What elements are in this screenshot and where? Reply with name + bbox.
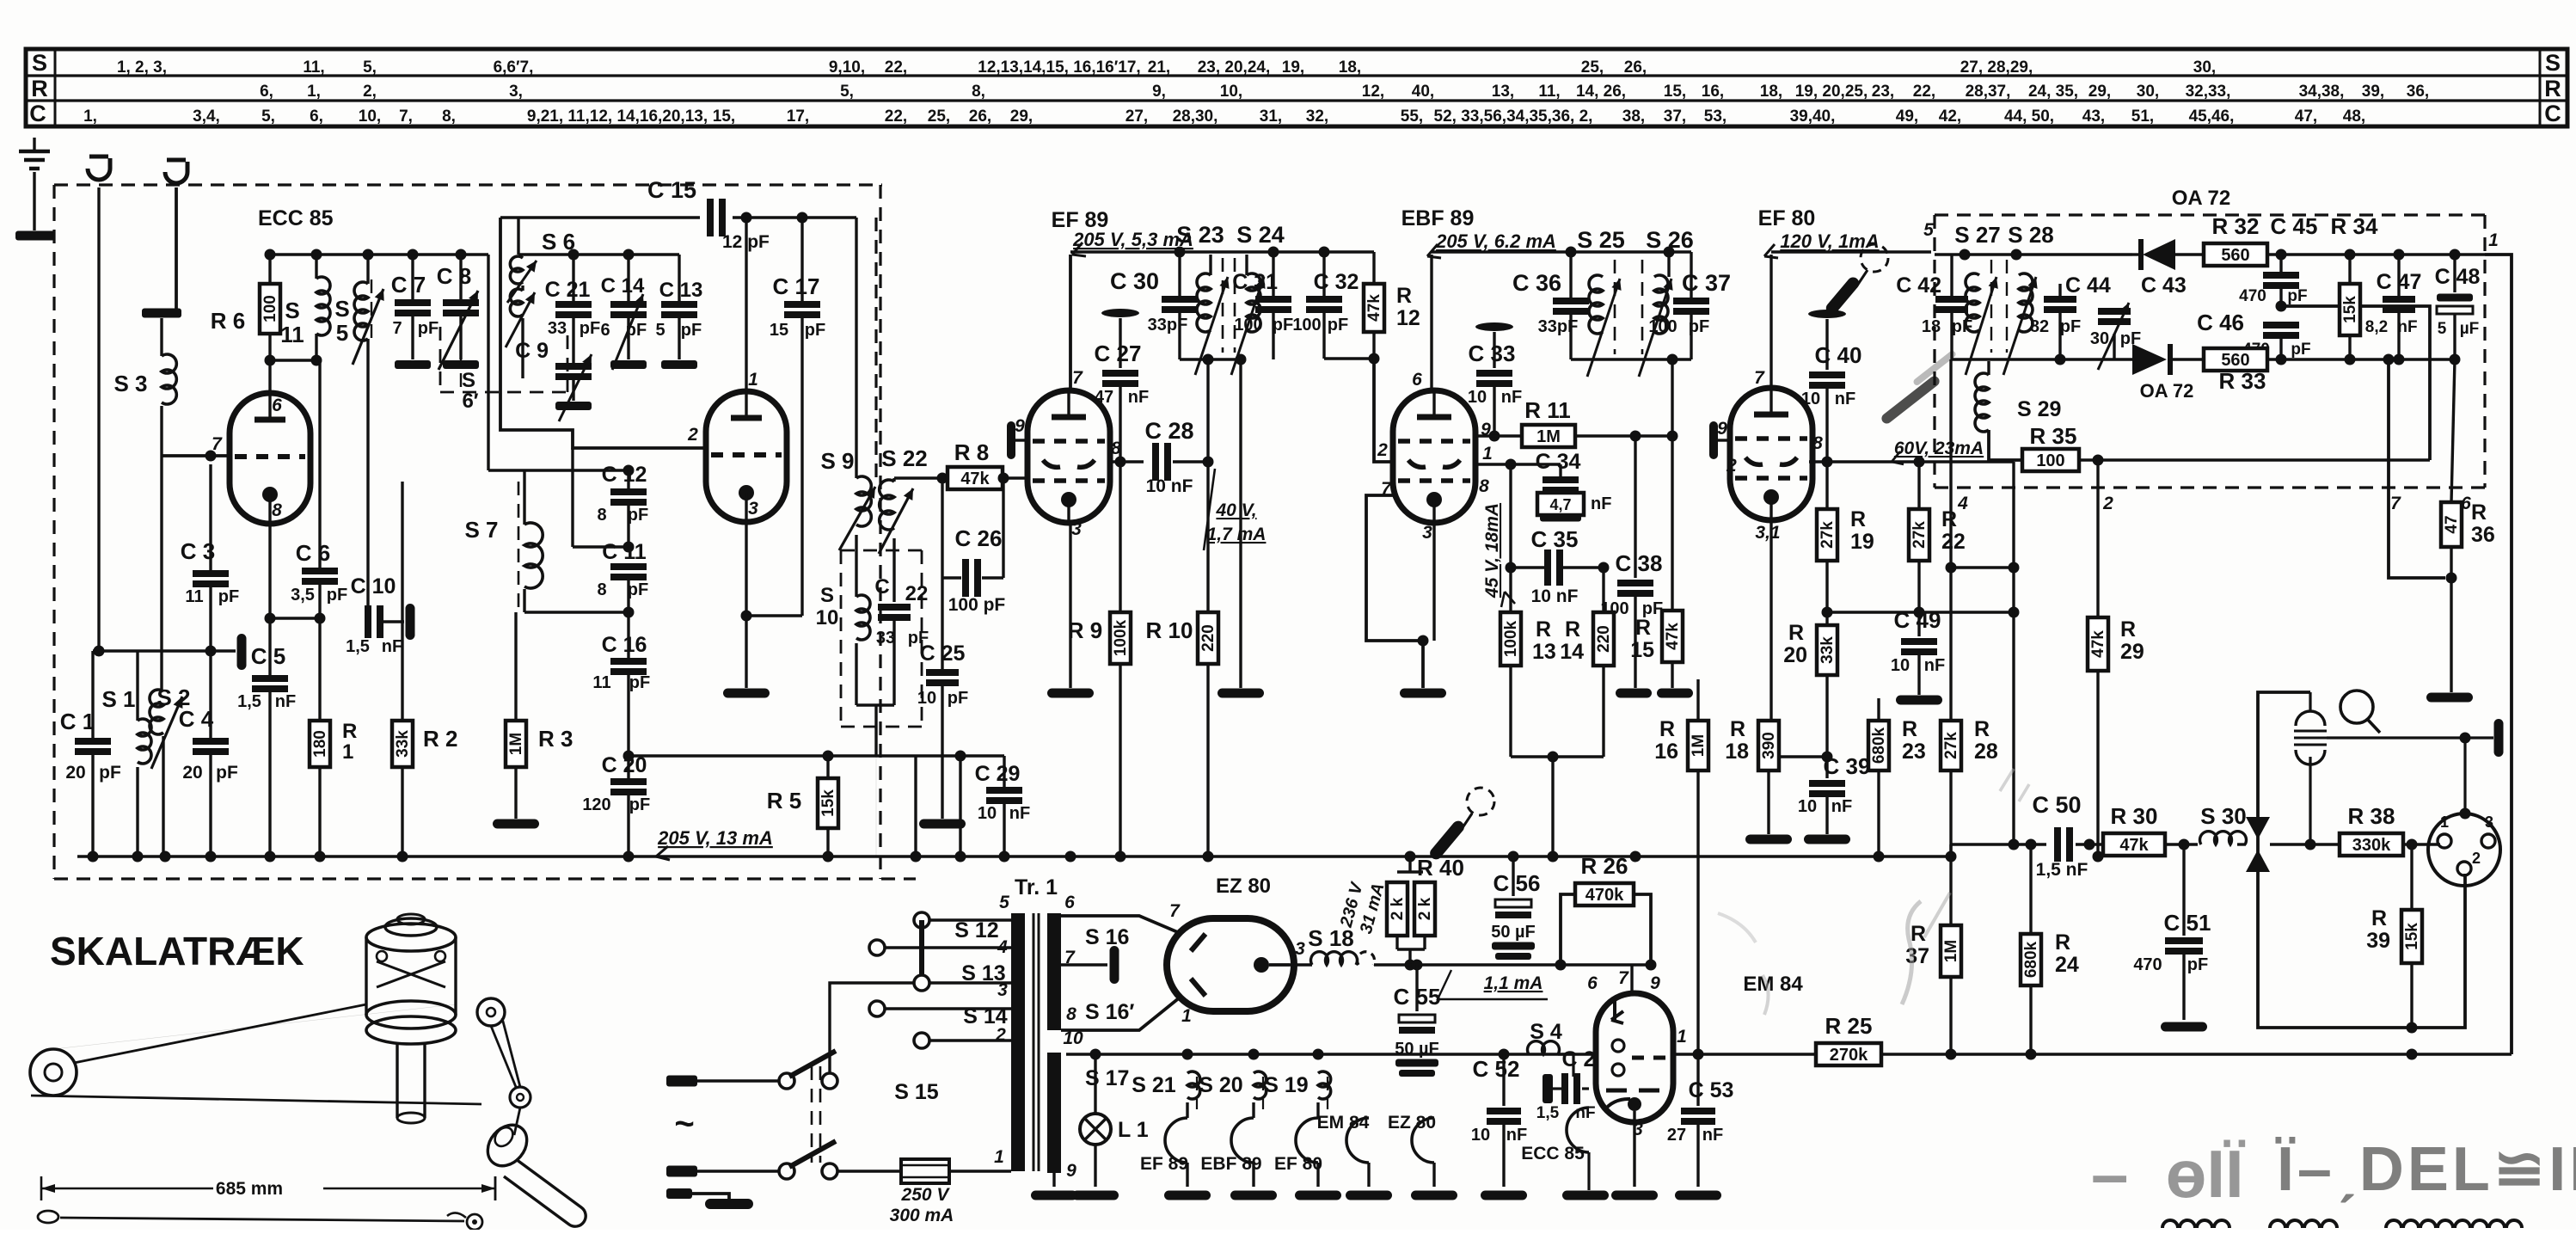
svg-text:43,: 43, xyxy=(2082,107,2105,126)
parts-location table frame xyxy=(26,49,2567,126)
wire anode node V1a xyxy=(268,360,271,393)
phone switch icon upper xyxy=(1861,244,1888,272)
capacitor C51 xyxy=(2182,844,2185,936)
svg-text:5: 5 xyxy=(655,321,665,340)
wire antenna 1 down xyxy=(97,187,100,651)
ground under C25 xyxy=(919,820,966,829)
dimension 685mm xyxy=(41,1176,495,1200)
svg-text:1, 2, 3,: 1, 2, 3, xyxy=(117,58,167,77)
svg-text:47k: 47k xyxy=(2119,836,2149,855)
svg-text:27, 28,29,: 27, 28,29, xyxy=(1960,58,2033,77)
wire to DIN top xyxy=(2463,738,2466,815)
svg-text:C: C xyxy=(874,575,889,599)
resistor R14 220 xyxy=(1602,568,1604,612)
tuning shaft knob xyxy=(480,1117,535,1174)
svg-text:8: 8 xyxy=(597,580,606,599)
pin 9 bar EF89 xyxy=(1007,421,1015,459)
svg-text:S 25: S 25 xyxy=(1577,227,1625,253)
svg-text:25,: 25, xyxy=(1581,58,1604,77)
svg-text:R: R xyxy=(1850,507,1866,531)
svg-text:EZ 80: EZ 80 xyxy=(1388,1113,1436,1133)
wire anode V1b xyxy=(745,218,747,391)
svg-text:C 1: C 1 xyxy=(60,709,95,734)
svg-text:1: 1 xyxy=(342,740,353,764)
svg-text:9,10,: 9,10, xyxy=(829,58,865,77)
ground R36 xyxy=(2426,693,2473,703)
svg-text:ECC 85: ECC 85 xyxy=(258,206,334,230)
svg-text:5: 5 xyxy=(1923,220,1934,240)
svg-text:19,: 19, xyxy=(1282,58,1304,77)
svg-text:S 17: S 17 xyxy=(1085,1066,1129,1090)
capacitor C21 xyxy=(572,255,574,301)
wire tank bottom to line xyxy=(856,703,894,706)
svg-text:S 24: S 24 xyxy=(1236,222,1285,248)
wire earphone to chassis xyxy=(2327,736,2493,739)
svg-text:1,7 mA: 1,7 mA xyxy=(1207,525,1267,544)
svg-text:38,: 38, xyxy=(1622,107,1645,126)
small pulley xyxy=(510,1087,531,1108)
svg-text:27k: 27k xyxy=(1819,521,1837,549)
svg-text:6: 6 xyxy=(1412,370,1422,390)
capacitor C31 xyxy=(1272,252,1274,296)
svg-text:C 27: C 27 xyxy=(1095,341,1142,366)
svg-text:R 11: R 11 xyxy=(1524,397,1571,423)
svg-text:2: 2 xyxy=(1377,440,1388,460)
tube EF80 V4 xyxy=(1730,388,1812,520)
svg-text:S: S xyxy=(334,296,349,322)
svg-text:C 2: C 2 xyxy=(1562,1047,1596,1071)
front-end dashed enclosure xyxy=(54,183,882,186)
capacitor C42 xyxy=(1950,255,1953,296)
resistor R12 47k xyxy=(1372,252,1375,284)
svg-text:300 mA: 300 mA xyxy=(890,1206,954,1225)
tube EBF89 V3 xyxy=(1393,390,1475,523)
svg-text:S: S xyxy=(462,369,475,392)
svg-text:C 51: C 51 xyxy=(2164,910,2211,936)
svg-text:7: 7 xyxy=(1169,901,1181,921)
capacitor C43 trimmer xyxy=(2098,308,2131,315)
svg-text:7: 7 xyxy=(1754,368,1765,388)
svg-text:L 1: L 1 xyxy=(1118,1118,1149,1142)
coil S2 variable xyxy=(160,456,163,691)
svg-text:3,4,: 3,4, xyxy=(193,107,220,126)
svg-text:390: 390 xyxy=(1760,732,1778,759)
svg-text:C 46: C 46 xyxy=(2197,310,2244,335)
wire EF80 cathode xyxy=(1769,521,1772,757)
svg-text:100: 100 xyxy=(261,295,279,322)
svg-text:31,: 31, xyxy=(1260,107,1282,126)
svg-text:11: 11 xyxy=(185,587,203,606)
svg-text:OA 72: OA 72 xyxy=(2172,187,2230,210)
resistor R39 15k xyxy=(2410,844,2413,910)
ground R15 xyxy=(1657,689,1693,698)
svg-text:8,: 8, xyxy=(442,107,456,126)
svg-text:22: 22 xyxy=(905,582,929,605)
resistor R26 470k xyxy=(1561,894,1575,965)
svg-text:100: 100 xyxy=(1292,316,1321,335)
svg-text:470: 470 xyxy=(2133,955,2162,974)
svg-text:5,: 5, xyxy=(363,58,377,77)
svg-text:45,46,: 45,46, xyxy=(2189,107,2235,126)
svg-text:120 V, 1mA: 120 V, 1mA xyxy=(1780,230,1879,252)
svg-text:22: 22 xyxy=(1941,530,1966,554)
svg-text:C 43: C 43 xyxy=(2141,273,2187,298)
bottom edge coil glyphs xyxy=(2162,1220,2229,1228)
svg-text:8: 8 xyxy=(1812,433,1823,453)
ground under R3 xyxy=(493,820,539,829)
svg-text:100k: 100k xyxy=(1502,620,1520,657)
svg-text:C 17: C 17 xyxy=(773,273,820,299)
svg-text:C 35: C 35 xyxy=(1531,526,1579,552)
svg-text:1M: 1M xyxy=(1690,734,1708,757)
capacitor C45 xyxy=(2279,255,2282,272)
svg-text:9: 9 xyxy=(1066,1161,1076,1181)
coil S11 xyxy=(315,255,317,279)
capacitor C30 xyxy=(1178,252,1181,296)
capacitor C1 xyxy=(75,738,111,745)
svg-text:R: R xyxy=(1788,621,1804,645)
svg-text:C 50: C 50 xyxy=(2032,792,2081,818)
wire EF89 grid xyxy=(1003,477,1028,479)
svg-text:13: 13 xyxy=(1532,640,1556,664)
svg-text:C 26: C 26 xyxy=(955,525,1003,551)
heater EM84 arc xyxy=(1346,1118,1369,1163)
svg-text:10: 10 xyxy=(1891,656,1910,675)
svg-text:nF: nF xyxy=(1835,390,1855,408)
svg-text:7: 7 xyxy=(212,434,223,454)
svg-text:C 34: C 34 xyxy=(1536,450,1581,474)
wire R13 R14 common xyxy=(1511,755,1604,758)
svg-text:C 37: C 37 xyxy=(1682,270,1731,296)
svg-text:pF: pF xyxy=(218,587,239,606)
svg-text:C 4: C 4 xyxy=(179,706,214,732)
svg-text:20: 20 xyxy=(1783,643,1807,667)
wire top bus 296 xyxy=(267,253,488,255)
svg-text:27k: 27k xyxy=(1911,521,1929,549)
resistor R20 33k xyxy=(1817,625,1837,675)
svg-text:C 14: C 14 xyxy=(601,274,645,298)
svg-text:R 3: R 3 xyxy=(538,726,573,752)
wire detector audio out xyxy=(2281,306,2430,460)
svg-text:R: R xyxy=(1659,717,1675,741)
svg-text:1: 1 xyxy=(2440,813,2449,831)
svg-text:52, 33,56,34,35,36, 2,: 52, 33,56,34,35,36, 2, xyxy=(1434,107,1593,126)
svg-text:16,: 16, xyxy=(1702,83,1724,101)
svg-text:16: 16 xyxy=(1654,740,1678,764)
resistor R37 1M xyxy=(1949,856,1952,925)
svg-text:33: 33 xyxy=(548,319,567,338)
svg-text:R 26: R 26 xyxy=(1581,853,1628,879)
ground tank1 xyxy=(1217,689,1264,698)
svg-text:C 21: C 21 xyxy=(545,278,591,302)
wire det lower bus xyxy=(1952,358,2079,360)
svg-text:C 3: C 3 xyxy=(181,538,215,564)
svg-text:11: 11 xyxy=(592,673,610,692)
wire heater-bottom line xyxy=(1066,1053,1593,1056)
resistor R15 47k xyxy=(1671,436,1673,611)
svg-text:pF: pF xyxy=(629,673,650,692)
antenna hook 1 xyxy=(88,158,110,180)
svg-text:C 6: C 6 xyxy=(296,540,330,566)
coil S6 variable xyxy=(510,256,523,284)
svg-text:R 32: R 32 xyxy=(2212,213,2260,239)
svg-text:32,33,: 32,33, xyxy=(2186,83,2231,101)
svg-text:R 8: R 8 xyxy=(954,439,989,465)
pickup Q symbol xyxy=(2340,691,2373,723)
resistor R6 100 xyxy=(268,255,271,284)
svg-text:10 nF: 10 nF xyxy=(1146,476,1193,496)
svg-text:1: 1 xyxy=(1677,1027,1687,1047)
capacitor C53 xyxy=(1681,1108,1715,1114)
svg-text:C 30: C 30 xyxy=(1110,268,1159,294)
svg-text:27: 27 xyxy=(1667,1126,1686,1145)
resistor R8 47k xyxy=(948,467,1003,489)
wire EZ80 anodes from windings xyxy=(1061,916,1180,933)
svg-text:pF: pF xyxy=(628,506,648,525)
svg-text:R: R xyxy=(2471,500,2487,525)
svg-text:29,: 29, xyxy=(2088,83,2111,101)
svg-text:C 47: C 47 xyxy=(2377,270,2422,294)
coil S5 variable xyxy=(371,279,372,344)
svg-text:R: R xyxy=(1911,922,1926,946)
chassis plate above C27 xyxy=(1101,309,1139,317)
svg-text:S: S xyxy=(32,50,47,76)
coil S22 variable xyxy=(892,478,895,482)
svg-text:10: 10 xyxy=(1471,1126,1490,1145)
svg-text:560: 560 xyxy=(2221,351,2249,370)
svg-text:27,: 27, xyxy=(1125,107,1148,126)
svg-text:28: 28 xyxy=(1974,740,1998,764)
svg-text:39,: 39, xyxy=(2362,83,2384,101)
coil S1 xyxy=(138,719,151,764)
svg-text:~: ~ xyxy=(674,1105,694,1143)
svg-text:7: 7 xyxy=(1618,968,1629,988)
svg-text:10: 10 xyxy=(816,606,839,629)
svg-text:29,: 29, xyxy=(1010,107,1033,126)
svg-text:10: 10 xyxy=(917,689,936,708)
resistor R11 1M xyxy=(1475,434,1524,437)
svg-text:4,7: 4,7 xyxy=(1549,496,1571,513)
svg-text:12,: 12, xyxy=(1362,83,1384,101)
svg-text:3: 3 xyxy=(1422,523,1432,543)
svg-text:8: 8 xyxy=(272,500,282,520)
svg-text:7: 7 xyxy=(392,319,402,338)
svg-text:C 56: C 56 xyxy=(1493,870,1541,896)
svg-text:C: C xyxy=(29,101,46,126)
capacitor C26 series xyxy=(941,478,943,578)
svg-text:21,: 21, xyxy=(1148,58,1170,77)
svg-text:220: 220 xyxy=(1595,625,1613,653)
capacitor C15 series xyxy=(500,216,700,218)
svg-text:23, 20,24,: 23, 20,24, xyxy=(1198,58,1271,77)
svg-text:R: R xyxy=(1565,617,1580,642)
svg-text:5,: 5, xyxy=(840,83,854,101)
svg-text:pF: pF xyxy=(327,586,347,605)
svg-text:6,: 6, xyxy=(260,83,273,101)
svg-text:C 8: C 8 xyxy=(437,263,471,289)
wire EF89 anode line xyxy=(1110,460,1144,463)
svg-text:R 9: R 9 xyxy=(1068,617,1102,643)
wire B+ bus 205V xyxy=(77,855,1952,858)
svg-text:8: 8 xyxy=(1066,1004,1076,1024)
svg-text:30,: 30, xyxy=(2193,58,2216,77)
capacitor C22 xyxy=(892,538,895,602)
wire R29 column xyxy=(2096,460,2099,617)
resistor R34 15k xyxy=(2348,255,2351,284)
svg-text:12: 12 xyxy=(1396,306,1420,330)
svg-text:SKALATRÆK: SKALATRÆK xyxy=(50,929,304,973)
svg-text:27k: 27k xyxy=(1942,732,1960,759)
svg-text:3,: 3, xyxy=(509,83,523,101)
diode OA72 upper xyxy=(2143,239,2175,270)
svg-text:1: 1 xyxy=(994,1147,1004,1167)
svg-text:pF: pF xyxy=(1952,317,1972,336)
capacitor C40 xyxy=(1808,310,1846,318)
svg-text:23,: 23, xyxy=(1872,83,1894,101)
primary tap wires xyxy=(929,918,1011,921)
capacitor C46 xyxy=(2263,322,2299,328)
right pulley xyxy=(477,998,505,1026)
svg-text:1,5: 1,5 xyxy=(346,637,370,656)
resistor R24 680k xyxy=(2029,844,2032,934)
node antenna plate xyxy=(15,231,55,241)
svg-text:9: 9 xyxy=(1717,419,1727,439)
svg-text:6: 6 xyxy=(272,396,282,415)
svg-text:pF: pF xyxy=(1273,316,1293,335)
svg-text:S 27: S 27 xyxy=(1954,222,2001,248)
svg-text:28,37,: 28,37, xyxy=(1966,83,2011,101)
resistor R35 100 xyxy=(2022,449,2079,471)
svg-text:pF: pF xyxy=(216,763,238,783)
resistor R19 27k xyxy=(1825,462,1828,509)
wire EBF89 pin1 to C34 xyxy=(1475,463,1511,465)
svg-text:23: 23 xyxy=(1902,740,1926,764)
svg-text:22,: 22, xyxy=(1913,83,1935,101)
wire grid triode1 xyxy=(162,454,230,457)
capacitor C17 xyxy=(800,218,803,301)
svg-text:270k: 270k xyxy=(1830,1046,1868,1065)
svg-text:pF: pF xyxy=(580,319,600,338)
wire R20 C49 node xyxy=(1827,611,2014,613)
svg-text:S 23: S 23 xyxy=(1176,222,1224,248)
svg-text:C 49: C 49 xyxy=(1894,607,1941,633)
capacitor C49 xyxy=(1917,612,1920,636)
svg-text:24, 35,: 24, 35, xyxy=(2028,83,2078,101)
coil S29 xyxy=(1951,359,1953,378)
svg-text:R 35: R 35 xyxy=(2030,423,2077,449)
coil S6prime variable xyxy=(521,285,524,291)
svg-text:10: 10 xyxy=(1468,388,1487,407)
svg-text:pF: pF xyxy=(418,319,439,338)
capacitor C12 xyxy=(627,470,629,488)
svg-text:47k: 47k xyxy=(2089,630,2107,658)
svg-text:pF: pF xyxy=(2187,955,2208,974)
svg-text:560: 560 xyxy=(2221,246,2249,265)
svg-text:C 10: C 10 xyxy=(351,574,396,599)
svg-text:S 26: S 26 xyxy=(1646,227,1694,253)
svg-text:nF: nF xyxy=(275,692,296,711)
svg-text:C 16: C 16 xyxy=(602,633,647,657)
svg-text:17,: 17, xyxy=(787,107,809,126)
svg-text:12,13,14,15, 16,16′17,: 12,13,14,15, 16,16′17, xyxy=(978,58,1140,77)
ground C39 xyxy=(1804,835,1850,844)
svg-text:47: 47 xyxy=(2443,515,2461,533)
wire feed line 879 xyxy=(629,754,1004,757)
coil S3 xyxy=(142,309,181,318)
svg-text:19, 20,25,: 19, 20,25, xyxy=(1795,83,1868,101)
svg-text:1M: 1M xyxy=(1536,427,1561,446)
wire tank1 bottom xyxy=(1180,358,1241,360)
capacitor C8 trimmer xyxy=(459,255,462,299)
svg-text:50 µF: 50 µF xyxy=(1395,1040,1439,1059)
svg-text:44, 50,: 44, 50, xyxy=(2004,107,2054,126)
svg-text:7: 7 xyxy=(2390,494,2401,513)
svg-text:36: 36 xyxy=(2471,523,2495,547)
svg-text:685 mm: 685 mm xyxy=(216,1179,283,1199)
svg-text:C 15: C 15 xyxy=(647,177,696,203)
mains switch xyxy=(779,1073,794,1089)
DIN socket xyxy=(2428,813,2500,886)
resistor R13 100k xyxy=(1509,568,1512,612)
svg-text:36,: 36, xyxy=(2407,83,2429,101)
pencil scribbles xyxy=(1902,901,1921,1004)
svg-text:9,21, 11,12, 14,16,20,13,: 9,21, 11,12, 14,16,20,13, xyxy=(527,107,708,126)
resistor R25 270k xyxy=(1816,1043,1881,1065)
wire tank2 bottom xyxy=(1571,358,1691,360)
svg-text:S 22: S 22 xyxy=(881,445,928,471)
svg-text:nF: nF xyxy=(1702,1126,1723,1145)
wire EF89 cathode xyxy=(1069,524,1071,688)
svg-text:C 38: C 38 xyxy=(1616,550,1663,576)
svg-text:1,: 1, xyxy=(307,83,321,101)
svg-text:S 9: S 9 xyxy=(820,448,854,474)
coil S30 xyxy=(2200,832,2247,844)
svg-text:Tr. 1: Tr. 1 xyxy=(1015,875,1058,899)
ground R18 xyxy=(1745,835,1792,844)
svg-text:3,1: 3,1 xyxy=(1755,523,1780,543)
svg-text:330k: 330k xyxy=(2352,836,2391,855)
wire R12 to EBF89 grid xyxy=(1374,359,1395,462)
svg-text:10,: 10, xyxy=(359,107,381,126)
svg-text:pF: pF xyxy=(2287,287,2307,305)
svg-text:EF 80: EF 80 xyxy=(1274,1154,1322,1174)
svg-text:19: 19 xyxy=(1850,530,1874,554)
capacitor C25 xyxy=(941,578,943,669)
svg-text:C 33: C 33 xyxy=(1469,341,1516,366)
svg-text:S 19: S 19 xyxy=(1264,1073,1308,1097)
svg-text:pF: pF xyxy=(681,321,702,340)
resistor R10 220 xyxy=(1206,462,1209,612)
wire C15 left leg xyxy=(500,218,705,448)
svg-text:47k: 47k xyxy=(960,470,990,488)
svg-text:R: R xyxy=(1396,284,1412,308)
svg-text:R: R xyxy=(2371,906,2387,930)
svg-text:7: 7 xyxy=(1072,368,1083,388)
svg-text:C 53: C 53 xyxy=(1689,1078,1734,1102)
svg-text:26,: 26, xyxy=(1624,58,1647,77)
resistor R3 1M xyxy=(514,612,517,721)
svg-text:22,: 22, xyxy=(885,58,907,77)
svg-text:29: 29 xyxy=(2120,640,2144,664)
svg-text:18: 18 xyxy=(1922,317,1941,336)
svg-text:6,6′7,: 6,6′7, xyxy=(494,58,534,77)
svg-text:R: R xyxy=(342,720,357,743)
svg-text:nF: nF xyxy=(1591,494,1611,513)
wire R16 down to C53 xyxy=(1696,1054,1699,1106)
left pulley xyxy=(30,1049,77,1096)
svg-text:S 3: S 3 xyxy=(113,371,147,396)
svg-text:pF: pF xyxy=(948,689,968,708)
